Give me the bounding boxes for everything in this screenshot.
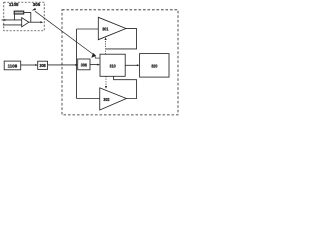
arrowhead into 320 — [137, 64, 140, 66]
leader stub to 310 — [95, 57, 99, 59]
leader bend at 306 — [94, 55, 96, 58]
svg-text:1108: 1108 — [9, 2, 19, 7]
main dashed box 300 — [62, 10, 178, 115]
svg-text:310: 310 — [110, 63, 117, 68]
wire B amp302 output to 310 bottom — [114, 76, 137, 98]
arrowhead into 310 — [97, 64, 100, 66]
svg-text:308: 308 — [40, 63, 47, 68]
box 310 — [100, 54, 125, 76]
svg-text:320: 320 — [151, 64, 158, 69]
input bus vertical — [76, 29, 78, 99]
wire input noninverting — [2, 19, 22, 21]
wire to amp 301 input — [77, 28, 99, 30]
box 1108 — [4, 61, 21, 70]
wire output — [29, 21, 41, 23]
box 308 — [38, 61, 48, 69]
arrowhead into 306 — [75, 64, 78, 66]
wire to amp 302 input — [77, 98, 100, 100]
svg-text:301: 301 — [102, 27, 109, 32]
box 306 — [78, 59, 90, 70]
svg-text:1108: 1108 — [8, 63, 18, 68]
arrowhead into 308 — [35, 64, 38, 66]
box 320 — [140, 54, 169, 78]
arrowhead into amp 301 — [105, 37, 107, 40]
leader arrowhead at 306 — [91, 53, 96, 58]
wire A amp301 output to 310 top — [106, 29, 137, 49]
resistor R (feedback) — [14, 11, 24, 14]
leader line to 306 — [35, 11, 94, 54]
wire feedback top — [24, 13, 31, 23]
wire 310 to 320 — [125, 64, 138, 66]
op-amp 301 (top) — [98, 17, 126, 39]
wire input inverting — [3, 24, 22, 26]
wire feedback left — [13, 14, 15, 20]
op-amp 305 — [22, 18, 29, 27]
arrowhead into amp 302 — [105, 86, 107, 89]
wire 308 to 306 — [48, 64, 77, 66]
op-amp 302 (bottom) — [100, 88, 127, 110]
detail dashed box (TIA detail view) — [4, 2, 44, 31]
output arrowhead — [40, 21, 43, 23]
dashed control line 310 to amp302 — [105, 76, 107, 86]
svg-text:302: 302 — [103, 97, 110, 102]
leader arrowhead for 305 — [32, 8, 36, 11]
svg-text:306: 306 — [81, 63, 88, 68]
wire 306 to 310 — [90, 64, 98, 66]
svg-text:305: 305 — [33, 2, 41, 7]
input arrowhead — [4, 19, 7, 21]
dashed control line 310 to amp301 — [105, 39, 107, 54]
wire 1108 to 308 — [21, 64, 37, 66]
